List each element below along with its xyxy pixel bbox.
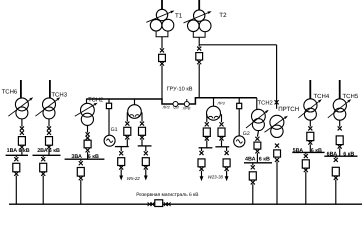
svg-text:6 кВ: 6 кВ — [343, 151, 354, 157]
svg-text:ЛР2: ЛР2 — [162, 105, 171, 109]
svg-text:W5-22: W5-22 — [127, 176, 140, 181]
svg-text:6 кВ: 6 кВ — [49, 148, 60, 154]
svg-text:Т1: Т1 — [175, 13, 183, 20]
svg-text:ГРУ-10 кВ: ГРУ-10 кВ — [167, 87, 193, 93]
svg-text:6 кВ: 6 кВ — [311, 148, 322, 154]
svg-text:Резервная магистраль 6 кВ: Резервная магистраль 6 кВ — [136, 192, 198, 198]
svg-text:ЛР3: ЛР3 — [216, 101, 225, 105]
svg-text:6 кВ: 6 кВ — [88, 154, 99, 160]
svg-text:5ВА: 5ВА — [293, 148, 304, 154]
svg-text:ЛРВ: ЛРВ — [182, 107, 191, 111]
svg-text:ТСН2: ТСН2 — [258, 99, 273, 106]
svg-text:4ВА: 4ВА — [245, 156, 256, 162]
svg-text:2ВА: 2ВА — [37, 148, 48, 154]
svg-text:G1: G1 — [111, 127, 118, 133]
svg-text:G2: G2 — [243, 131, 250, 137]
svg-text:QB: QB — [173, 106, 179, 110]
svg-text:6 кВ: 6 кВ — [259, 156, 270, 162]
svg-text:ТСН5: ТСН5 — [343, 93, 359, 100]
svg-text:ТСН4: ТСН4 — [314, 93, 330, 100]
svg-text:ТСН2: ТСН2 — [88, 96, 103, 103]
svg-text:6 кВ: 6 кВ — [19, 148, 30, 154]
svg-text:3ВА: 3ВА — [71, 154, 82, 160]
svg-text:W23-38: W23-38 — [208, 175, 224, 180]
svg-text:Т2: Т2 — [219, 12, 227, 19]
svg-text:1ВА: 1ВА — [7, 148, 18, 154]
svg-text:ПРТСН: ПРТСН — [278, 106, 299, 113]
svg-text:ТСН3: ТСН3 — [51, 91, 67, 98]
svg-text:ТСН6: ТСН6 — [2, 89, 18, 96]
